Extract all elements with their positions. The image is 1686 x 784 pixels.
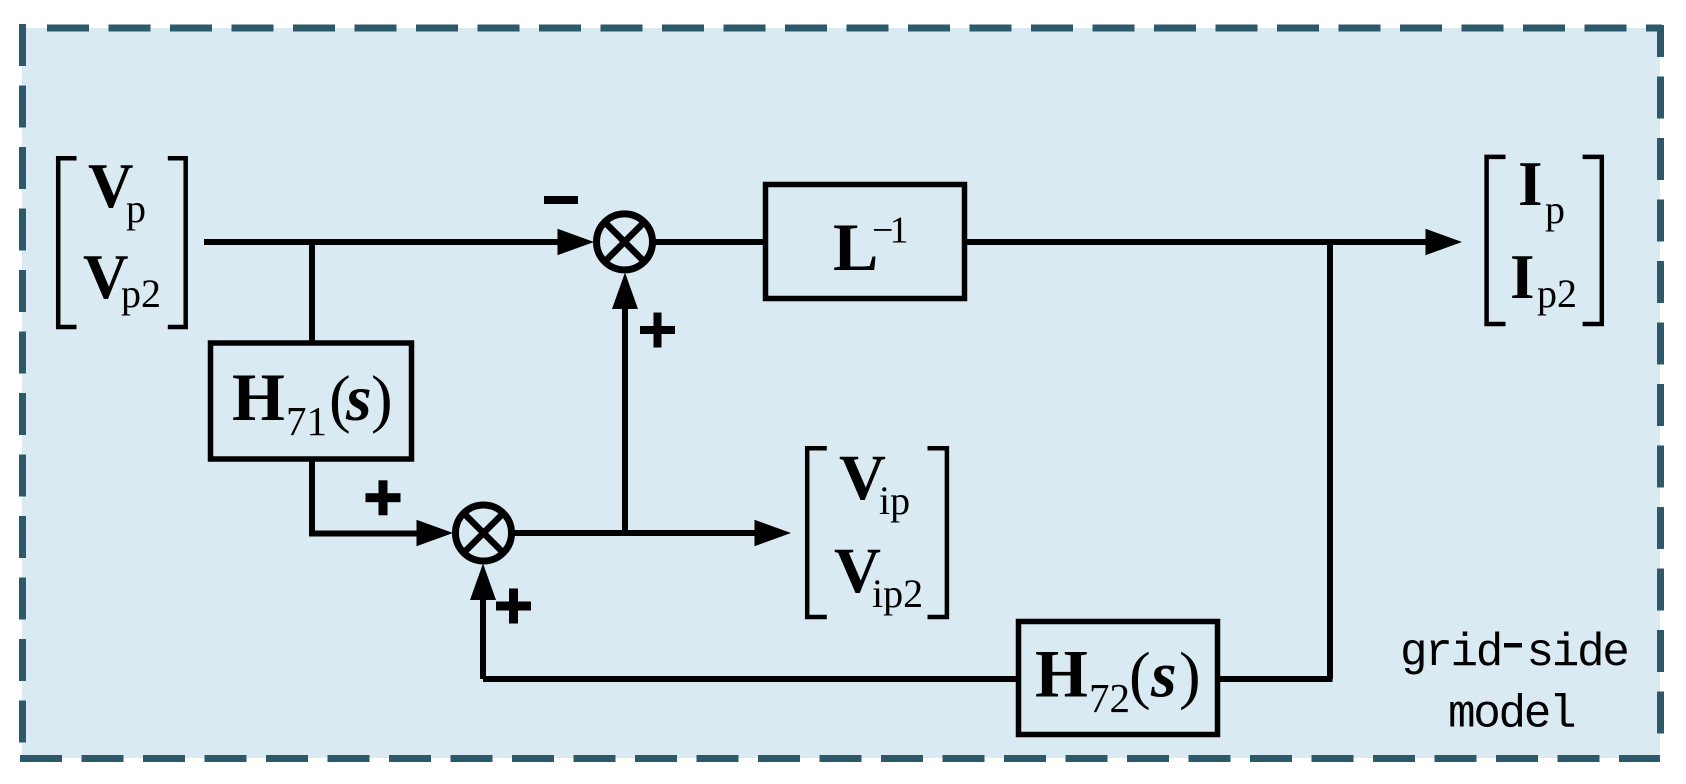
- plus sign at S1 bottom input: [640, 313, 675, 348]
- node Vp input vector labels: [83, 151, 161, 316]
- svg-text:p2: p2: [121, 271, 161, 316]
- label grid-side model: [1400, 627, 1627, 740]
- wire S1 to block L: [653, 239, 763, 245]
- wire L to output: [967, 239, 1427, 245]
- wire H72 to feedback tap: [1220, 676, 1333, 682]
- wire H71 down and right to summing junction S2: [312, 460, 420, 534]
- svg-text:p: p: [1545, 187, 1565, 232]
- arrowhead into S2: [417, 520, 454, 546]
- block H72(s) box: [1019, 622, 1218, 735]
- svg-text:p2: p2: [1537, 271, 1577, 316]
- svg-text:I: I: [1518, 149, 1543, 219]
- svg-text:I: I: [1510, 242, 1535, 312]
- arrowhead into S1: [558, 229, 595, 255]
- svg-text:71: 71: [286, 398, 327, 444]
- svg-text:−1: −1: [872, 210, 908, 252]
- node Ip output vector bracket: [1487, 157, 1602, 324]
- svg-text:(: (: [1129, 640, 1151, 712]
- arrowhead into S1 from below: [612, 273, 638, 310]
- svg-text:): ): [371, 363, 393, 435]
- svg-text:grid: grid: [1400, 627, 1501, 679]
- node Vp input vector bracket: [58, 158, 186, 327]
- arrowhead into Vip vector: [755, 520, 792, 546]
- svg-text:s: s: [1150, 639, 1177, 712]
- block L^-1 box: [766, 185, 965, 299]
- summing junction S2: [456, 505, 512, 561]
- svg-text:side: side: [1527, 627, 1628, 679]
- svg-text:H: H: [1035, 636, 1088, 712]
- svg-text:p: p: [126, 186, 146, 231]
- svg-text:ip: ip: [879, 478, 910, 523]
- wire bottom feedback from H72 to S2: [483, 676, 1016, 682]
- minus sign at S1: [544, 196, 578, 204]
- wire S2 to Vip vector: [512, 530, 756, 536]
- wire tap up from S2 output to S1: [622, 305, 628, 533]
- plus sign at S2 left input: [366, 480, 401, 515]
- svg-text:model: model: [1448, 688, 1575, 740]
- block H71(s) box: [211, 343, 412, 459]
- node Ip output vector labels: [1510, 149, 1577, 316]
- wire feedback tap down from output line: [1327, 242, 1333, 679]
- wire input to summing junction S1: [204, 239, 560, 245]
- svg-text:H: H: [232, 359, 285, 435]
- svg-text:ip2: ip2: [872, 571, 923, 616]
- node Vip vector labels: [834, 442, 923, 616]
- block H71(s) label: [232, 359, 393, 444]
- svg-text:s: s: [345, 362, 372, 435]
- svg-text:): ): [1179, 640, 1201, 712]
- svg-text:72: 72: [1089, 675, 1130, 721]
- arrowhead into Ip vector: [1426, 229, 1463, 255]
- wire up into S2 from below: [480, 598, 486, 679]
- arrowhead into S2 from below: [470, 564, 496, 601]
- wire tap down to H71: [309, 242, 315, 342]
- block H72(s) label: [1035, 636, 1201, 722]
- node Vip vector bracket: [807, 448, 947, 617]
- plus sign at S2 bottom input: [496, 589, 531, 624]
- summing junction S1: [597, 214, 653, 270]
- block L^-1 label: [833, 209, 908, 285]
